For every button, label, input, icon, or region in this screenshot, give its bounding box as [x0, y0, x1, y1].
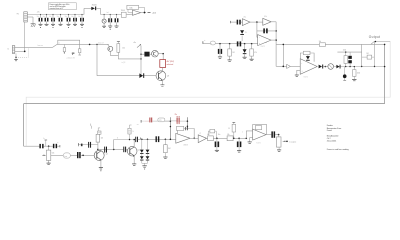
svg-text:10u: 10u: [65, 16, 67, 18]
svg-text:10k: 10k: [129, 7, 132, 9]
wire: into volume pot: [24, 145, 40, 147]
op-amp U3b: [263, 18, 271, 25]
svg-text:+4v5: +4v5: [152, 12, 156, 14]
wire: + input to ground: [297, 70, 300, 75]
svg-text:to output: to output: [289, 140, 296, 143]
svg-text:sw: sw: [137, 124, 139, 126]
transistor Q2 (round): [150, 53, 152, 55]
svg-text:10k: 10k: [101, 137, 104, 139]
ferrite bead FB1: [203, 43, 211, 45]
svg-text:U3b: U3b: [264, 16, 267, 18]
svg-text:4k7 (2k2): 4k7 (2k2): [167, 61, 175, 63]
capacitor C17 (red highlighted): [149, 118, 150, 123]
svg-text:Q3: Q3: [167, 75, 169, 77]
capacitor C25b series: [156, 136, 157, 142]
svg-text:10u: 10u: [57, 16, 59, 18]
ground: [48, 160, 50, 163]
resistor R8 to ground: [353, 67, 355, 70]
wire: left drop of bottom feed bus: [23, 104, 25, 147]
op-amp U2: [133, 10, 141, 15]
svg-text:50k: 50k: [52, 153, 55, 155]
svg-text:mounted close to IC: mounted close to IC: [50, 7, 64, 10]
svg-text:473: 473: [159, 120, 162, 122]
wire: stub up to supply tick: [45, 140, 47, 146]
svg-text:Output: Output: [369, 35, 381, 39]
wire: bottom signal row: [138, 138, 176, 140]
svg-text:10u: 10u: [78, 16, 80, 18]
capacitor C21 series: [77, 152, 79, 158]
resistor R3 to ground: [229, 43, 231, 45]
resistor R6: [345, 52, 347, 56]
svg-text:TL071: TL071: [256, 142, 260, 144]
label box: [158, 118, 165, 122]
buffer stage small triangle: [287, 64, 291, 68]
wire: [190, 137, 198, 139]
svg-text:led: led: [107, 12, 109, 14]
op-amp U6: [176, 133, 190, 143]
wire: + input ground: [250, 138, 253, 142]
ground: [163, 156, 167, 158]
op-amp U7 buffer: [198, 135, 206, 143]
wire: from output node down: [373, 42, 375, 67]
net flag and resistor R10: [130, 125, 132, 128]
dashed enclosure: [16, 49, 28, 58]
pot VR2 level: [278, 135, 280, 137]
wire: rail to vref buffer: [126, 13, 132, 15]
svg-text:10u: 10u: [37, 16, 39, 18]
svg-text:bias ref: bias ref: [98, 42, 104, 44]
capacitor C23 series to Q5 base: [123, 147, 124, 153]
label oval fuzz: [63, 153, 70, 158]
output RC network: [337, 51, 361, 53]
svg-text:selected: selected: [167, 63, 174, 66]
wire: U3b out: [271, 21, 276, 23]
capacitor C6: [74, 15, 76, 18]
capacitor C13 series: [237, 20, 239, 25]
ground: [45, 23, 49, 25]
ground: [14, 58, 17, 60]
svg-text:pulldown 1M: pulldown 1M: [67, 57, 76, 59]
wire: feedback left leg: [127, 9, 129, 12]
capacitor C22 series: [104, 147, 105, 153]
resistor R14: [227, 136, 233, 141]
svg-text:Fender: Fender: [327, 124, 333, 127]
wire: input signal: [15, 46, 53, 48]
op-amp U3a: [241, 21, 243, 23]
capacitor C24 series: [134, 137, 137, 142]
chassis ground: [31, 23, 36, 25]
wire: vref output: [141, 12, 146, 14]
resistor R12 feedback: [176, 126, 183, 130]
ground: [237, 150, 241, 152]
wire: rail to chassis ground: [27, 16, 33, 18]
regulator U1 box: [121, 12, 126, 17]
wire: U3b input feed: [256, 22, 258, 37]
resistor R4 to ground: [251, 43, 253, 45]
resistor R9 collector load: [96, 134, 100, 142]
svg-text:8k2: 8k2: [168, 148, 171, 150]
capacitor C27 series: [266, 134, 271, 136]
transistor Q4: [94, 150, 104, 160]
ground: [59, 23, 63, 25]
input jack J2: [12, 46, 15, 54]
resistor R16 bias to U8: [233, 132, 235, 138]
svg-text:Drawn in and free reading: Drawn in and free reading: [327, 148, 350, 151]
ground: [51, 23, 55, 25]
diode D1 on raised rail segment: [83, 8, 85, 14]
svg-text:10u: 10u: [218, 134, 221, 136]
capacitor C15: [349, 52, 351, 56]
op-amp U4: [258, 35, 271, 46]
svg-text:10u: 10u: [71, 16, 73, 18]
capacitor C16 to ground: [344, 67, 346, 75]
svg-text:+9v: +9v: [37, 12, 40, 14]
wire: to Q3 collector: [162, 67, 164, 71]
capacitor C26 to ground: [238, 138, 240, 140]
wire: +9V rail: [27, 14, 84, 16]
capacitor C20 series: [53, 144, 55, 148]
resistor R15 feedback: [255, 126, 261, 130]
wire: [250, 21, 263, 23]
wire: output bus down right side: [384, 44, 386, 103]
wire: up into U8: [246, 138, 248, 140]
ground: [248, 141, 252, 143]
ground: [228, 59, 232, 61]
capacitor C3: [52, 15, 54, 18]
node tick top row: [230, 21, 232, 23]
svg-text:C in: C in: [57, 42, 60, 44]
diode D5 in feedback: [307, 55, 309, 56]
wire: diodes to ground: [141, 161, 143, 164]
node tick: [140, 120, 142, 123]
resistor R0 on input: [63, 44, 65, 47]
op-amp U5: [300, 59, 317, 75]
capacitor C14 feedback: [263, 28, 265, 33]
transistor Q3 fuzz: [156, 71, 166, 81]
wire: Q5 emitter to ground: [133, 156, 135, 164]
wire: jack ring to battery minus: [15, 50, 25, 52]
wire: [165, 120, 171, 122]
svg-text:78L09: 78L09: [121, 10, 125, 12]
diode D4b above bus: [241, 36, 243, 41]
ground: [80, 23, 84, 25]
resistor R2 (highlighted red): [160, 60, 166, 68]
diode D3 on base wire: [139, 73, 143, 78]
capacitor C2: [46, 15, 48, 18]
wire: jog up: [53, 44, 58, 47]
emitter resistor: [161, 80, 163, 85]
wire: mid bus: [215, 43, 257, 45]
resistor R11 to ground: [165, 139, 167, 141]
ground: [67, 23, 71, 25]
ground: [218, 56, 222, 58]
wire: input bus: [57, 43, 109, 45]
diode D7 inline: [336, 65, 339, 69]
wire: faint routed return wire (right vertical): [26, 42, 390, 147]
wire: down to out node: [275, 22, 277, 67]
transistor Q5: [127, 146, 137, 156]
wire: long bottom feed bus: [24, 103, 385, 105]
svg-text:in: in: [204, 40, 205, 42]
wire: jack sleeve to ground: [15, 53, 17, 59]
text: notes block: [49, 3, 77, 10]
svg-text:100k: 100k: [357, 72, 361, 74]
wire: stage supply vertical: [140, 46, 142, 76]
resistor R1: [117, 44, 120, 53]
ground: [295, 74, 299, 76]
svg-text:26-12-2004: 26-12-2004: [327, 140, 337, 142]
op-amp U6 feedback loop: [178, 129, 195, 139]
resistor R5 on output feed: [319, 43, 325, 47]
capacitor C11 to ground: [219, 43, 221, 45]
svg-text:47k: 47k: [254, 52, 257, 54]
ground: [352, 78, 356, 80]
node IN2 tick: [202, 41, 204, 44]
svg-text:TL072: TL072: [261, 46, 265, 48]
ground: [115, 25, 119, 27]
svg-text:LM308: LM308: [183, 145, 188, 147]
resistor R vref feedback box: [127, 5, 139, 9]
ground: [99, 167, 103, 169]
svg-text:TL072: TL072: [304, 77, 308, 79]
diode D6 at U5 output: [319, 65, 322, 69]
capacitor C1: [40, 15, 42, 18]
wire: to output network: [334, 66, 385, 68]
bypass loop over input: [58, 40, 80, 49]
svg-text:100k: 100k: [343, 50, 347, 52]
lamp/transistor indicator: [325, 66, 328, 68]
svg-text:10k: 10k: [227, 134, 230, 136]
LED power indicator: [103, 15, 105, 20]
wire: tone net left vertical: [169, 117, 171, 139]
capacitor C7: [81, 15, 83, 18]
capacitor C22b series: [81, 144, 83, 147]
pot VR1 volume: [48, 146, 50, 150]
svg-text:22n: 22n: [175, 114, 178, 116]
capacitor C5: [68, 15, 70, 18]
op-amp U8 feedback loop: [253, 124, 267, 134]
capacitor C25 to ground: [216, 138, 218, 140]
capacitor C10a: [79, 49, 81, 53]
wire: rail continues: [101, 14, 122, 16]
svg-text:1N: 1N: [245, 32, 247, 34]
ground: [142, 165, 146, 167]
capacitor C8: [109, 15, 111, 19]
wire: bypass branch left of R9: [78, 144, 98, 146]
wire: Q4 emitter to ground: [100, 160, 102, 168]
wire: tone net right vertical: [186, 117, 188, 128]
squiggle mark: [90, 124, 92, 127]
ground: [278, 147, 280, 150]
wire: Q4 collector: [100, 149, 102, 151]
svg-text:10u: 10u: [43, 16, 45, 18]
svg-text:In: In: [8, 48, 10, 50]
wire: base input: [97, 75, 156, 77]
capacitor C18 (red highlighted): [170, 120, 176, 122]
svg-text:10k: 10k: [122, 47, 125, 49]
ground: [39, 23, 43, 25]
capacitor C12 series: [237, 41, 239, 46]
diode D4 to ground: [244, 43, 246, 45]
ground: [102, 25, 106, 27]
capacitor C9: [116, 15, 118, 19]
op-amp U7 feedback loop: [208, 131, 216, 138]
wire: net right side: [361, 44, 363, 66]
svg-text:U3a: U3a: [243, 17, 246, 19]
wire: riser to output stub: [371, 42, 390, 45]
capacitor C19 series: [39, 144, 41, 148]
ground: [73, 23, 77, 25]
resistor R13: [207, 137, 208, 139]
wire: collector feed: [158, 53, 163, 55]
svg-text:4k7: 4k7: [207, 134, 210, 136]
capacitor C28 feedback bars: [185, 127, 187, 130]
svg-text:fuzz: fuzz: [64, 156, 67, 158]
svg-text:10u: 10u: [49, 16, 51, 18]
svg-text:+9v: +9v: [133, 42, 136, 44]
wire: upper collector row: [113, 140, 115, 150]
wire: collector row: [98, 148, 123, 150]
diode LED D2: [141, 53, 144, 55]
resistor R7 to output node: [367, 55, 372, 59]
wire: to stage supply: [118, 52, 141, 59]
ground: [243, 56, 247, 58]
svg-text:1N4001: 1N4001: [92, 4, 97, 6]
transistor Q1 input buffer: [108, 44, 110, 46]
svg-text:Q4: Q4: [106, 153, 108, 155]
wire: from input buffer down: [96, 44, 98, 75]
supply arrow +9v: [137, 45, 140, 48]
ground: [132, 163, 136, 165]
wire: [290, 65, 300, 67]
feedback loop wire: [257, 30, 276, 32]
wire: feedback right leg: [139, 6, 145, 8]
ground: [215, 149, 219, 151]
svg-text:Q5: Q5: [138, 150, 140, 152]
wire: output run: [271, 39, 276, 41]
wire: branch down to U5: [282, 44, 284, 66]
battery connector J1: [24, 12, 28, 22]
ground: [108, 25, 112, 27]
small network mark: [72, 53, 75, 54]
svg-text:10k: 10k: [319, 41, 322, 43]
capacitor C4: [60, 15, 62, 18]
wire: wiper row: [51, 154, 64, 156]
ground: [250, 58, 254, 60]
clipping diodes D8-D11: [140, 138, 142, 140]
svg-text:U7: U7: [199, 133, 201, 135]
wire: Q5 collector up: [133, 140, 135, 148]
op-amp U8: [253, 129, 267, 140]
op-amp U5 feedback loop: [300, 53, 314, 62]
